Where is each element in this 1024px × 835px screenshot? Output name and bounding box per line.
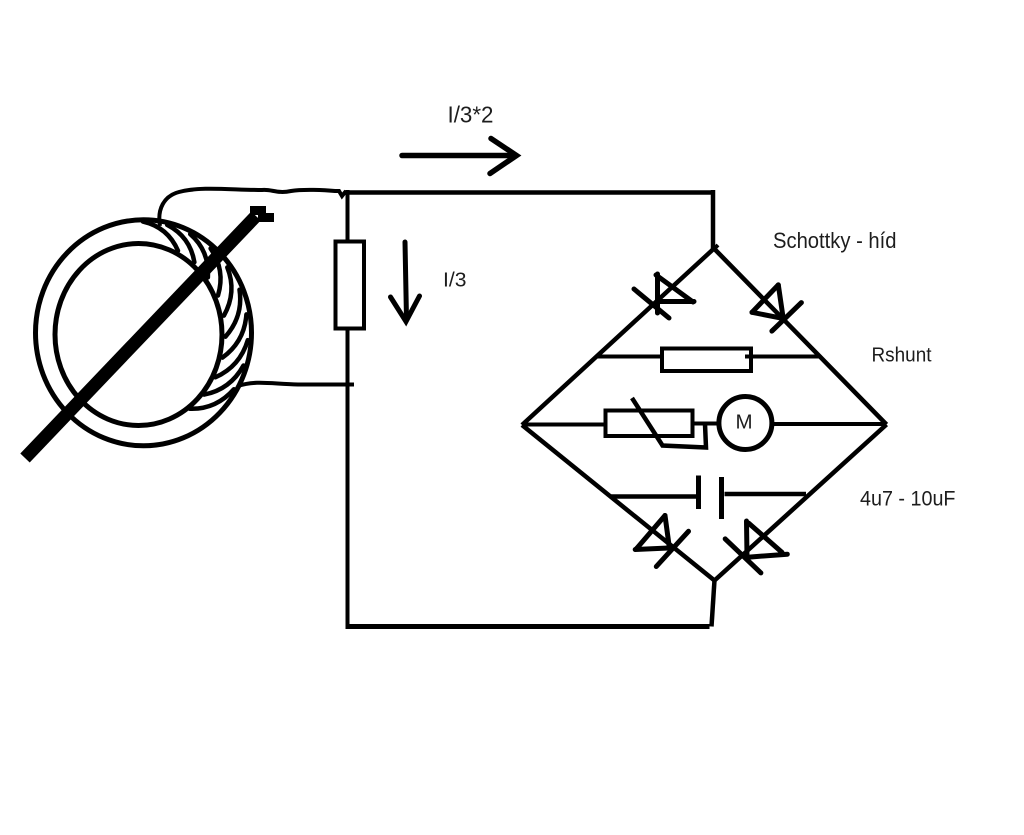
current arrow I/3 head [391,296,420,322]
svg-text:I/3*2: I/3*2 [448,102,494,128]
tick at bridge top vertex [713,245,718,250]
primary conductor thick bar through toroid [25,216,256,458]
right drop wire to bridge top [711,190,716,250]
left rail lower segment [346,329,350,628]
bridge side bottom-right [715,425,887,581]
diode D4 (lower-right arm) [725,521,787,573]
bridge side top-right [714,249,887,425]
wire bridge bottom vertex to bottom rail [712,580,715,627]
svg-text:4u7 - 10uF: 4u7 - 10uF [860,488,956,511]
wire varistor to motor [692,422,720,426]
resistor R1 body [336,242,365,329]
Rshunt branch left wire [597,355,663,359]
left rail upper segment [346,190,350,242]
middle branch right wire [771,422,885,426]
current arrow I/3*2 head [490,139,517,174]
current arrow I/3 shaft [405,242,407,319]
top rail wire [345,190,713,195]
current transformer T1 toroid outer circle [36,220,252,446]
wire from toroid right side to left vertical rail [238,383,354,386]
capacitor right plate [719,477,724,519]
winding turns on toroid core [143,222,248,409]
resistor Rshunt body [662,349,751,372]
svg-text:M: M [736,411,753,434]
svg-text:Schottky - híd: Schottky - híd [773,228,897,253]
capacitor left plate [696,476,701,510]
varistor RV body [606,411,693,437]
svg-text:Rshunt: Rshunt [872,343,932,366]
current transformer T1 toroid inner circle [55,244,222,426]
current arrow I/3*2 shaft [402,153,511,159]
bridge side top-left [522,249,714,426]
bridge side bottom-left [522,425,715,581]
varistor diagonal stroke [632,398,706,448]
middle branch left wire [523,423,607,427]
wire from toroid top to top rail [159,189,346,226]
diode D1 (upper-left arm) [634,274,694,318]
svg-text:I/3: I/3 [443,270,467,292]
diode D3 (lower-left arm) [635,516,688,567]
bottom rail wire [346,624,710,629]
capacitor branch left wire [610,494,696,499]
Rshunt branch right wire [745,355,819,359]
capacitor branch right wire [725,492,807,497]
diode D2 (upper-right arm) [752,285,801,331]
motor M circle [719,397,772,450]
